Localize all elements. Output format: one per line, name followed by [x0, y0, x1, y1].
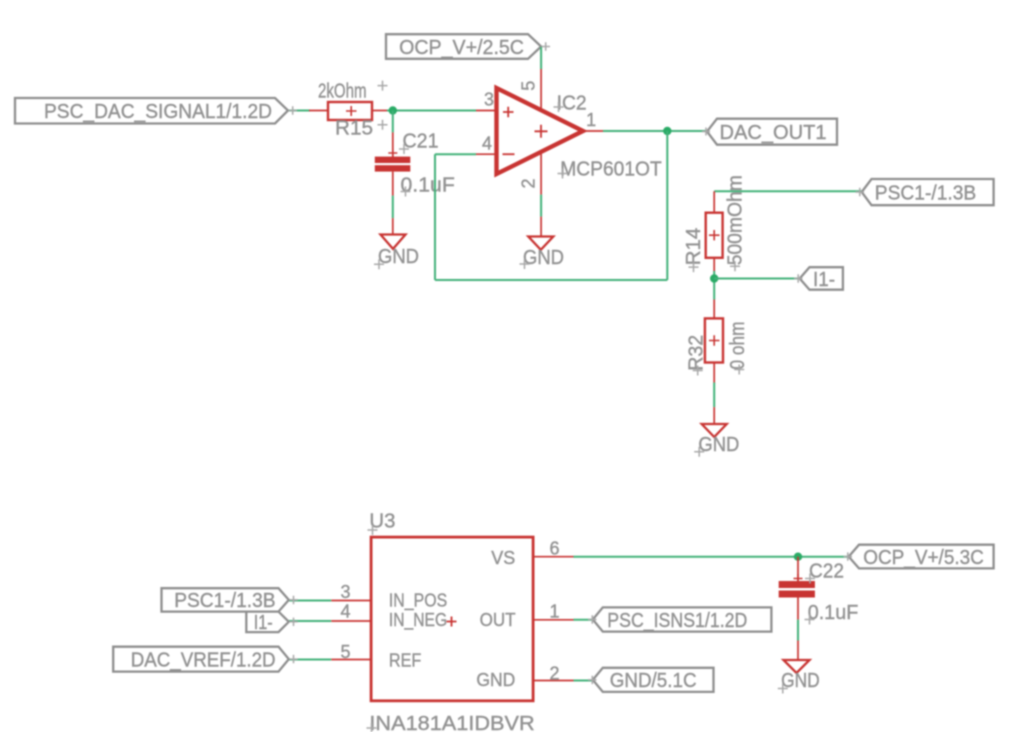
pin number 4 — [482, 133, 492, 153]
wire feedback pin4 horizontal — [435, 153, 476, 155]
svg-text:DAC_OUT1: DAC_OUT1 — [720, 122, 827, 144]
pin name OUT — [480, 610, 516, 630]
svg-text:0.1uF: 0.1uF — [401, 175, 455, 197]
IC U3 box — [371, 537, 533, 701]
name label R15 — [335, 117, 388, 139]
U3 pin 6 lead — [533, 556, 573, 558]
wire feedback left vertical — [434, 154, 436, 280]
svg-text:DAC_VREF/1.2D: DAC_VREF/1.2D — [131, 649, 276, 671]
U3 pin 5 lead — [331, 659, 371, 661]
op-amp IC2 pin 4 lead — [476, 153, 497, 155]
svg-text:6: 6 — [550, 539, 560, 559]
wire C22 to GND — [797, 620, 799, 641]
svg-text:GND: GND — [378, 246, 419, 268]
ground symbol under C22 — [784, 660, 810, 673]
node PSC1-/1.3B right flag — [856, 179, 994, 205]
value label 0.1uF C22 — [805, 602, 859, 625]
pin number 2 — [550, 664, 560, 684]
pin name GND — [476, 670, 515, 690]
op-amp IC2 pin 2 lead — [540, 152, 542, 195]
svg-text:R14: R14 — [683, 228, 705, 266]
wire U3 pin 6 to OCP_V+ flag — [574, 556, 849, 558]
value label 0 ohm rotated — [727, 322, 749, 375]
capacitor C21 origin cross — [388, 149, 397, 158]
node PSC_ISNS1/1.2D flag — [588, 607, 771, 631]
wire DAC_VREF flag to U3 pin 5 — [289, 659, 331, 661]
svg-text:5: 5 — [340, 642, 350, 662]
resistor R32 top pin lead — [713, 300, 715, 319]
pin number 3 — [340, 582, 350, 602]
U3 pin 4 lead — [331, 620, 371, 622]
svg-text:REF: REF — [389, 651, 421, 671]
value label 0.1uF C21 — [401, 175, 455, 197]
value label 500mOhm rotated — [724, 175, 746, 271]
svg-text:GND: GND — [698, 434, 739, 456]
junction node at R15 / C21 — [389, 106, 397, 114]
ground symbol under op-amp — [528, 237, 553, 250]
value label MCP601OT — [558, 159, 662, 181]
resistor R1 5 pin lead left — [309, 110, 328, 112]
svg-text:GND: GND — [523, 247, 564, 269]
pin number 1 — [550, 602, 560, 622]
pin number 6 — [550, 539, 560, 559]
svg-text:PSC1-/1.3B: PSC1-/1.3B — [875, 182, 976, 204]
wire R14 top to PSC1- flag — [714, 190, 862, 192]
capacitor C22 top pin lead — [797, 557, 799, 581]
svg-text:OCP_V+/5.3C: OCP_V+/5.3C — [863, 547, 984, 569]
GND symbol pin under C21 — [392, 218, 394, 234]
svg-text:R15: R15 — [335, 117, 373, 139]
svg-text:PSC_ISNS1/1.2D: PSC_ISNS1/1.2D — [607, 610, 747, 632]
svg-text:OUT: OUT — [480, 610, 516, 630]
label GND under C21 — [374, 246, 419, 269]
svg-text:I1-: I1- — [813, 269, 835, 291]
svg-text:IN_POS: IN_POS — [389, 591, 447, 612]
node DAC_OUT1 flag — [702, 119, 837, 145]
GND symbol pin under op-amp — [540, 217, 542, 237]
U3 pin 1 lead — [533, 619, 573, 621]
pin number 5 rotated — [519, 81, 539, 91]
capacitor C22 plates — [779, 581, 815, 598]
junction node at DAC_OUT1 — [663, 127, 671, 135]
pin name IN_POS — [389, 591, 447, 612]
svg-text:IC2: IC2 — [557, 92, 587, 114]
wire R32 to GND — [713, 383, 715, 408]
value label 2kOhm — [318, 80, 388, 102]
node OCP_V+/5.3C flag — [844, 545, 994, 569]
resistor R14 top pin lead — [713, 191, 715, 212]
svg-text:R32: R32 — [685, 335, 707, 371]
wire R15 to op-amp pin 3 — [387, 110, 476, 112]
pin name VS — [491, 548, 515, 568]
resistor R15 pin lead right — [372, 110, 387, 112]
svg-text:IN_NEG: IN_NEG — [389, 610, 447, 631]
pin number 5 — [340, 642, 350, 662]
svg-text:4: 4 — [340, 602, 350, 622]
U3 pin 3 lead — [331, 600, 371, 602]
name label R32 rotated — [685, 335, 707, 376]
wire R14 to junction to R32 — [713, 271, 715, 300]
capacitor C21 top pin lead — [392, 132, 394, 157]
svg-text:3: 3 — [484, 90, 494, 110]
svg-text:5: 5 — [519, 81, 539, 91]
op-amp IC2 triangle — [497, 88, 584, 174]
name label U3 — [368, 510, 396, 535]
node PSC1-/1.3B left flag — [162, 588, 298, 612]
label GND under op-amp — [520, 247, 565, 269]
value label INA181A1IDBVR — [367, 713, 535, 732]
wire feedback bottom horizontal — [435, 279, 667, 281]
svg-text:PSC1-/1.3B: PSC1-/1.3B — [174, 590, 275, 612]
svg-text:1: 1 — [586, 110, 596, 130]
svg-text:U3: U3 — [369, 510, 395, 532]
ground symbol under R32 — [702, 424, 727, 437]
pin number 4 — [340, 602, 350, 622]
wire op-amp pin 2 to GND — [540, 195, 542, 217]
junction node I1- — [710, 274, 718, 282]
wire C21 to GND — [392, 196, 394, 219]
svg-text:1: 1 — [550, 602, 560, 622]
wire U3 pin 2 to GND flag — [574, 680, 593, 682]
name label IC2 — [554, 92, 587, 114]
svg-text:VS: VS — [491, 548, 515, 568]
pin name IN_NEG and part origin cross — [389, 610, 457, 631]
GND symbol pin under C22 — [797, 641, 799, 661]
U3 pin 2 lead — [533, 680, 573, 682]
wire feedback right vertical — [666, 131, 668, 280]
resistor R14 body — [706, 213, 723, 258]
svg-text:2: 2 — [519, 178, 539, 188]
wire I1- flag to U3 pin 4 — [289, 620, 331, 622]
svg-text:PSC_DAC_SIGNAL1/1.2D: PSC_DAC_SIGNAL1/1.2D — [44, 101, 272, 123]
op-amp IC2 pin 5 lead — [540, 69, 542, 110]
junction node at C22 — [794, 553, 802, 561]
name label R14 rotated — [683, 228, 705, 272]
svg-text:GND/5.1C: GND/5.1C — [610, 670, 697, 692]
name label C21 — [399, 130, 439, 154]
capacitor C21 bottom pin lead — [392, 172, 394, 196]
resistor R32 body — [705, 318, 723, 362]
label GND under R32 — [694, 434, 739, 457]
capacitor C22 origin cross — [794, 574, 803, 583]
wire U3 pin 1 to PSC_ISNS1 flag — [574, 619, 593, 621]
node DAC_VREF/1.2D flag — [113, 647, 298, 672]
label GND under C22 — [778, 670, 820, 694]
ground symbol under C21 — [381, 235, 406, 249]
GND symbol pin under R32 — [713, 407, 715, 424]
wire OCP_V+ flag to op-amp pin 5 — [540, 47, 542, 69]
resistor R32 bottom pin lead — [713, 363, 715, 383]
wire junction down to C21 — [392, 111, 394, 133]
svg-text:MCP601OT: MCP601OT — [560, 159, 661, 181]
capacitor C22 bottom pin lead — [797, 598, 799, 620]
capacitor C21 plates — [375, 157, 411, 172]
wire net PSC_DAC_SIGNAL1 to R15 — [288, 110, 310, 112]
pin name REF — [389, 651, 421, 671]
pin number 1 — [586, 110, 596, 130]
svg-text:500mOhm: 500mOhm — [724, 175, 746, 265]
wire junction to I1- flag — [714, 278, 800, 280]
resistor R15 body — [328, 102, 372, 120]
node I1- left flag — [246, 612, 297, 634]
wire op-amp output to DAC_OUT1 — [603, 130, 707, 132]
op-amp IC2 pin 1 lead — [583, 130, 603, 132]
node OCP_V+/2.5C flag — [386, 34, 550, 59]
svg-text:4: 4 — [482, 133, 492, 153]
pin number 2 rotated — [519, 178, 539, 188]
node GND/5.1C flag — [588, 668, 714, 692]
svg-text:I1-: I1- — [254, 612, 273, 634]
pin number 3 — [484, 90, 494, 110]
svg-text:2kOhm: 2kOhm — [318, 80, 367, 102]
name label C22 — [805, 561, 844, 584]
resistor R14 bottom pin lead — [713, 258, 715, 271]
wire PSC1- flag to U3 pin 3 — [289, 600, 331, 602]
svg-text:OCP_V+/2.5C: OCP_V+/2.5C — [399, 37, 524, 59]
svg-text:3: 3 — [340, 582, 350, 602]
node PSC_DAC_SIGNAL1 flag — [15, 98, 297, 124]
node I1- right flag — [794, 267, 843, 291]
svg-text:0 ohm: 0 ohm — [727, 322, 749, 370]
svg-text:0.1uF: 0.1uF — [808, 602, 859, 624]
svg-text:GND: GND — [476, 670, 515, 690]
op-amp IC2 pin 3 lead — [476, 110, 497, 112]
svg-text:2: 2 — [550, 664, 560, 684]
svg-text:INA181A1IDBVR: INA181A1IDBVR — [369, 713, 534, 732]
